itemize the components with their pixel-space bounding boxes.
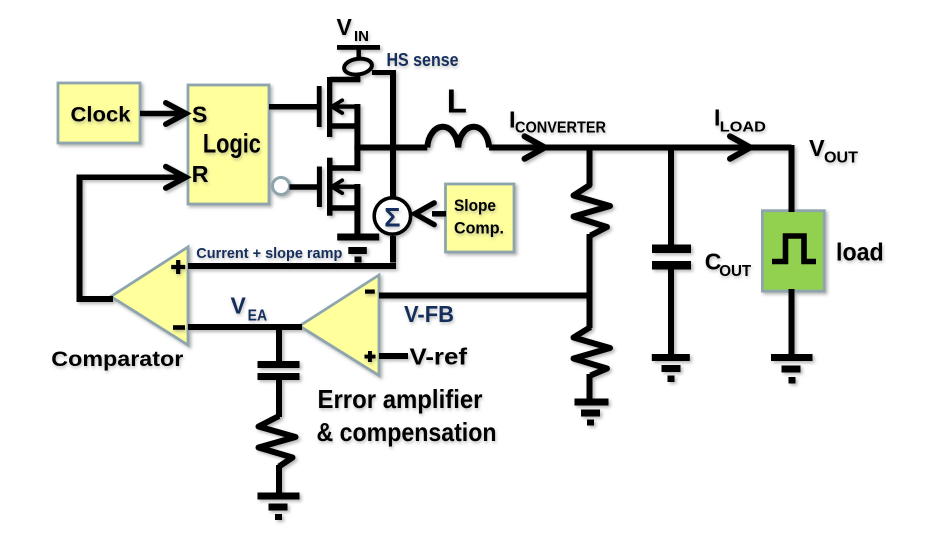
- arrowhead Iconverter: [525, 136, 545, 159]
- svg-text:R: R: [192, 161, 209, 187]
- Q2 source stub: [330, 205, 360, 211]
- wire comparator output stub: [77, 296, 114, 302]
- arrowhead R input: [166, 167, 186, 188]
- wire sense to sigma horizontal: [372, 70, 393, 75]
- wire R input arrow shaft: [77, 175, 185, 181]
- svg-text:Σ: Σ: [384, 203, 400, 233]
- ground G4 Cout: [652, 354, 690, 382]
- Q2 drain stub: [330, 165, 360, 171]
- svg-text:V: V: [809, 135, 825, 161]
- wire cap to resistor: [276, 379, 282, 417]
- wire mid node down: [587, 296, 593, 329]
- svg-text:L: L: [447, 83, 467, 120]
- svg-text:Comp.: Comp.: [454, 218, 504, 237]
- svg-text:LOAD: LOAD: [720, 119, 766, 136]
- wire Q1 drain vertical: [354, 74, 360, 82]
- svg-text:Error amplifier: Error amplifier: [318, 384, 483, 414]
- svg-text:Comparator: Comparator: [51, 348, 183, 371]
- wire R2 to ground: [587, 374, 593, 400]
- label error amp minus: [365, 290, 375, 294]
- wire slope comp arrow shaft: [432, 211, 446, 217]
- wire VEA node down to comp cap: [276, 327, 282, 362]
- wire error amp plus stub: [379, 353, 408, 359]
- resistor R1: [574, 185, 611, 236]
- svg-text:Current + slope ramp: Current + slope ramp: [196, 245, 342, 262]
- svg-text:V-FB: V-FB: [404, 301, 454, 327]
- transistor Q1 HS channel bar: [327, 77, 332, 137]
- load pulse icon: [772, 236, 816, 262]
- arrowhead clock to S: [166, 103, 186, 124]
- svg-text:& compensation: & compensation: [317, 417, 497, 447]
- wire V-FB: [379, 293, 593, 299]
- HS sense ellipse: [343, 57, 373, 76]
- Q2 body arrowhead: [332, 180, 342, 193]
- ground G1 LS source: [337, 234, 379, 263]
- inversion bubble logic output: [273, 178, 290, 195]
- resistor R2: [574, 327, 611, 376]
- capacitor C1 compensation: [258, 361, 300, 380]
- ground G3 divider: [575, 399, 609, 426]
- VIN bar: [337, 45, 380, 50]
- ground G2 compensation: [258, 493, 300, 521]
- svg-text:load: load: [836, 238, 884, 266]
- wire logic to HS gate: [269, 104, 317, 110]
- slope comp box: [446, 184, 515, 252]
- resistor R3 compensation: [259, 416, 296, 467]
- svg-text:IN: IN: [354, 28, 369, 45]
- wire current+slope ramp to comparator +: [188, 263, 396, 269]
- svg-text:V: V: [337, 14, 353, 40]
- Q1 drain stub: [330, 77, 360, 83]
- load box: [762, 211, 824, 291]
- svg-text:OUT: OUT: [719, 263, 752, 280]
- arrowhead slope comp to sigma: [415, 203, 434, 225]
- svg-text:S: S: [192, 101, 207, 127]
- svg-text:EA: EA: [248, 307, 268, 324]
- wire R1 to mid node: [587, 234, 593, 295]
- transistor Q2 LS channel bar: [327, 158, 333, 216]
- Q1 body arrow stub: [332, 104, 360, 108]
- wire VEA comparator minus to error amp: [188, 324, 302, 330]
- wire Cout to ground: [668, 269, 674, 355]
- label comparator minus: [173, 325, 185, 330]
- wire bubble to LS gate: [290, 184, 318, 190]
- svg-text:V: V: [231, 293, 247, 319]
- wire load box to ground: [789, 289, 795, 355]
- wire R3 to ground: [276, 465, 282, 494]
- transistor Q2 LS gate bar: [317, 167, 322, 208]
- error amplifier U2: [300, 275, 380, 376]
- wire vout corner down to load: [789, 145, 795, 212]
- svg-text:CONVERTER: CONVERTER: [515, 120, 606, 137]
- ground G5 load: [771, 354, 813, 384]
- Q1 body arrowhead: [332, 100, 342, 113]
- svg-text:Clock: Clock: [71, 102, 131, 126]
- wire Q2 source vertical: [354, 184, 360, 236]
- clock box: [58, 83, 140, 143]
- label comparator plus: [171, 260, 185, 274]
- switch node rail: [357, 145, 427, 151]
- wire feedback vertical: [77, 175, 83, 297]
- transistor Q1 HS gate bar: [317, 86, 322, 127]
- wire VIN stub: [356, 49, 361, 59]
- summer sigma circle: [374, 198, 410, 234]
- comparator U1: [111, 247, 188, 345]
- svg-text:HS sense: HS sense: [387, 50, 459, 70]
- Q2 body arrow stub: [332, 184, 360, 188]
- wire clock to S arrow shaft: [140, 111, 184, 117]
- svg-text:OUT: OUT: [824, 150, 858, 167]
- label error amp plus: [365, 351, 376, 362]
- logic box: [188, 85, 269, 204]
- wire Q1 source vertical to switch node: [354, 104, 360, 150]
- wire divider from rail: [587, 145, 593, 186]
- output rail: [489, 145, 791, 151]
- arrowhead Iload: [730, 136, 750, 159]
- wire Q2 drain vertical: [354, 145, 360, 171]
- svg-text:V-ref: V-ref: [410, 343, 468, 369]
- inductor L1: [427, 127, 489, 148]
- svg-text:Slope: Slope: [454, 196, 496, 215]
- wire Cout from rail: [668, 145, 674, 246]
- svg-text:Logic: Logic: [203, 129, 261, 159]
- wire sense vertical down to sigma: [390, 70, 396, 197]
- Q1 source stub: [330, 123, 360, 129]
- capacitor Cout: [652, 245, 691, 270]
- wire sigma down: [390, 236, 396, 263]
